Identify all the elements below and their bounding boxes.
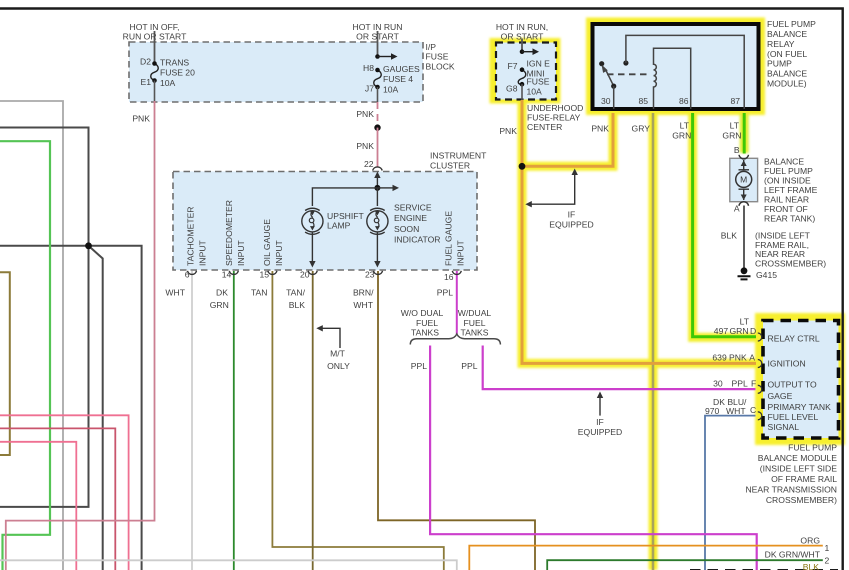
svg-text:C: C	[750, 405, 756, 415]
motor BALANCE FUEL PUMP	[736, 171, 752, 187]
wire PPL w/dual tanks to module F	[483, 346, 756, 390]
svg-text:(ON INSIDE: (ON INSIDE	[764, 176, 811, 186]
svg-text:I/P: I/P	[426, 42, 437, 52]
wire PNK ignition feed core	[522, 100, 756, 363]
svg-text:SPEEDOMETER: SPEEDOMETER	[224, 200, 234, 266]
svg-text:FUEL PUMP: FUEL PUMP	[764, 166, 813, 176]
svg-text:INSTRUMENT: INSTRUMENT	[430, 151, 487, 161]
ground G415	[741, 267, 748, 274]
underhood fuse-relay center box	[496, 43, 556, 100]
svg-text:W/DUAL: W/DUAL	[458, 308, 492, 318]
svg-text:HOT IN RUN: HOT IN RUN	[353, 22, 403, 32]
svg-text:LT: LT	[740, 316, 750, 326]
svg-text:ONLY: ONLY	[327, 361, 350, 371]
connector bracket module C	[758, 412, 762, 420]
svg-text:GAGE: GAGE	[768, 391, 793, 401]
wire dark gray down-left exit	[0, 246, 89, 507]
bottom cut-off component box edge	[690, 569, 838, 570]
svg-text:639: 639	[712, 353, 727, 363]
svg-text:22: 22	[364, 159, 374, 169]
connector bracket motor B	[739, 155, 749, 159]
wire green loop	[0, 141, 50, 570]
svg-text:IGNITION: IGNITION	[768, 358, 806, 368]
junction black wires	[85, 242, 92, 249]
cluster branch to upshift lamp	[312, 188, 377, 206]
relay switch blade	[606, 70, 614, 87]
fuse IGN E MINI FUSE	[518, 70, 526, 85]
svg-text:LT: LT	[730, 120, 740, 130]
svg-text:A: A	[734, 203, 740, 213]
relay switch to pin 30	[613, 86, 615, 109]
svg-text:TANKS: TANKS	[411, 328, 439, 338]
svg-text:FUSE: FUSE	[426, 52, 449, 62]
lamp UPSHIFT	[302, 208, 323, 234]
connector bracket pin 14	[229, 271, 238, 275]
connector bracket module D	[758, 333, 762, 341]
svg-text:87: 87	[730, 96, 740, 106]
svg-text:MODULE): MODULE)	[767, 79, 807, 89]
svg-text:BRN/: BRN/	[353, 287, 374, 297]
arrow IF EQUIPPED lower	[599, 396, 601, 416]
wire dark gray jog branch	[89, 246, 103, 570]
splice S214 dot	[374, 124, 380, 130]
svg-text:CENTER: CENTER	[527, 122, 562, 132]
svg-text:H8: H8	[363, 63, 374, 73]
svg-text:RAIL NEAR: RAIL NEAR	[764, 195, 809, 205]
svg-text:G8: G8	[506, 83, 518, 93]
wire between GAUGES fuse and box bottom	[377, 87, 379, 102]
cluster branch to SES lamp	[376, 188, 378, 206]
svg-text:DK: DK	[216, 287, 228, 297]
svg-text:E1: E1	[140, 77, 151, 87]
highlight wire PNK relay 30 branch	[522, 113, 613, 166]
svg-text:FUEL PUMP: FUEL PUMP	[767, 19, 816, 29]
wire dark gray horizontal branch	[0, 246, 142, 570]
connector bracket pin 15	[268, 271, 277, 275]
svg-text:PNK: PNK	[356, 141, 374, 151]
svg-text:M/T: M/T	[330, 348, 346, 358]
wire PPL w/o dual tanks	[430, 346, 757, 570]
svg-text:BALANCE: BALANCE	[767, 69, 807, 79]
relay coil	[654, 48, 691, 109]
svg-text:HOT IN RUN,: HOT IN RUN,	[496, 22, 548, 32]
junction arrow H8 feed	[378, 56, 393, 58]
svg-text:FUEL: FUEL	[416, 318, 438, 328]
svg-text:WHT: WHT	[353, 300, 373, 310]
svg-text:WHT: WHT	[726, 406, 746, 416]
arrow IF EQUIPPED upper	[530, 173, 575, 204]
wire TAN pin 15	[272, 271, 443, 570]
svg-text:PRIMARY TANK: PRIMARY TANK	[768, 402, 832, 412]
wire PNK to cluster pin 22	[377, 128, 379, 167]
junction PNK splice	[519, 163, 526, 170]
svg-text:FUSE-RELAY: FUSE-RELAY	[527, 113, 581, 123]
svg-text:ENGINE: ENGINE	[394, 213, 427, 223]
svg-text:F7: F7	[507, 61, 517, 71]
svg-text:PPL: PPL	[732, 379, 748, 389]
svg-text:OIL GAUGE: OIL GAUGE	[262, 219, 272, 266]
wire BLK feed above IGN E fuse	[521, 39, 523, 52]
svg-text:FUEL PUMP: FUEL PUMP	[788, 443, 837, 453]
svg-text:20: 20	[300, 270, 310, 280]
svg-text:85: 85	[638, 96, 648, 106]
svg-text:FUEL LEVEL: FUEL LEVEL	[768, 412, 819, 422]
junction arrow F7 feed	[522, 51, 534, 53]
svg-text:LT: LT	[680, 120, 690, 130]
svg-text:INPUT: INPUT	[198, 239, 208, 266]
svg-text:W/O DUAL: W/O DUAL	[401, 308, 444, 318]
svg-text:REAR TANK): REAR TANK)	[764, 214, 815, 224]
svg-text:B: B	[734, 145, 740, 155]
svg-text:10A: 10A	[160, 78, 176, 88]
instrument cluster box	[173, 172, 477, 271]
connector bracket pin 22	[373, 167, 383, 171]
wire pink 3	[0, 442, 76, 570]
svg-text:PPL: PPL	[461, 361, 477, 371]
cluster internal arrow right	[377, 187, 393, 189]
svg-text:BALANCE: BALANCE	[767, 29, 807, 39]
I/P fuse block box	[129, 42, 423, 102]
svg-text:PNK: PNK	[499, 126, 517, 136]
highlight underhood fuse box	[490, 38, 561, 104]
svg-text:ORG: ORG	[800, 536, 820, 546]
svg-text:OF FRAME RAIL: OF FRAME RAIL	[771, 474, 837, 484]
svg-text:30: 30	[713, 379, 723, 389]
highlighter bands layer	[490, 18, 846, 570]
wire PNK relay 30 branch core	[522, 113, 613, 166]
svg-text:TAN/: TAN/	[286, 287, 306, 297]
highlight wire LT GRN relay ctrl	[693, 113, 757, 337]
instrument cluster pin 22 internal	[376, 176, 378, 188]
splice brace dual tanks	[410, 334, 500, 344]
wire tan hook left	[0, 272, 10, 455]
svg-text:(INSIDE LEFT SIDE: (INSIDE LEFT SIDE	[760, 464, 837, 474]
svg-text:BLK: BLK	[289, 300, 306, 310]
wire gray full bottom	[0, 560, 457, 570]
svg-text:INDICATOR: INDICATOR	[394, 235, 440, 245]
svg-text:OUTPUT TO: OUTPUT TO	[768, 380, 817, 390]
svg-text:GRN: GRN	[722, 130, 741, 140]
lamp SERVICE ENGINE SOON	[367, 208, 388, 234]
highlight wire GRY	[649, 113, 658, 570]
svg-text:INPUT: INPUT	[236, 239, 246, 266]
svg-text:EQUIPPED: EQUIPPED	[578, 427, 622, 437]
svg-text:86: 86	[679, 96, 689, 106]
wire LT GRN relay ctrl core to module D	[693, 113, 756, 337]
wire TAN/BLK pin 20	[312, 271, 314, 570]
svg-text:DK GRN/WHT: DK GRN/WHT	[765, 550, 821, 560]
svg-text:TAN: TAN	[251, 287, 268, 297]
wire between IGN E fuse and box bottom	[521, 84, 523, 100]
cluster internal junction	[374, 185, 380, 191]
wire PNK from GAUGES fuse dashed segment	[377, 102, 379, 128]
svg-text:TRANS: TRANS	[160, 58, 189, 68]
svg-text:FUSE 20: FUSE 20	[160, 68, 195, 78]
svg-text:BALANCE: BALANCE	[764, 157, 804, 167]
svg-text:23: 23	[365, 270, 375, 280]
connector bracket pin 16	[452, 271, 461, 275]
svg-text:BLOCK: BLOCK	[426, 61, 455, 71]
svg-text:14: 14	[222, 270, 232, 280]
svg-text:BLK: BLK	[721, 231, 738, 241]
highlight wire PNK ignition feed	[522, 100, 757, 363]
connector bracket pin 20	[308, 271, 317, 275]
wire below TRANS fuse inside box	[154, 81, 156, 102]
svg-text:RUN OR START: RUN OR START	[123, 32, 187, 42]
svg-text:CROSSMEMBER): CROSSMEMBER)	[755, 258, 826, 268]
wire gray loop	[0, 101, 63, 570]
wire WHT pin 6	[191, 271, 193, 570]
highlight wire LT GRN pump feed	[740, 113, 749, 153]
svg-text:GRN: GRN	[730, 326, 749, 336]
svg-text:FUSE: FUSE	[527, 77, 550, 87]
svg-text:HOT IN OFF,: HOT IN OFF,	[130, 22, 180, 32]
wire BRN/WHT pin 23	[378, 271, 535, 570]
svg-text:PNK: PNK	[132, 114, 150, 124]
svg-text:GRN: GRN	[672, 130, 691, 140]
svg-text:IGN E: IGN E	[527, 58, 551, 68]
svg-text:1: 1	[825, 543, 830, 553]
svg-text:OR START: OR START	[356, 32, 399, 42]
wire pink 1	[0, 415, 129, 570]
svg-text:EQUIPPED: EQUIPPED	[549, 219, 593, 229]
svg-text:SERVICE: SERVICE	[394, 203, 432, 213]
svg-text:RELAY: RELAY	[767, 39, 795, 49]
svg-text:FUSE 4: FUSE 4	[383, 74, 413, 84]
svg-text:A: A	[749, 353, 755, 363]
connector bracket module F	[758, 385, 762, 393]
relay mechanical link dashed	[607, 73, 648, 75]
svg-text:F: F	[751, 379, 756, 389]
wire pink 2	[0, 428, 115, 570]
svg-text:GRY: GRY	[632, 123, 651, 133]
svg-text:FUEL GAUGE: FUEL GAUGE	[444, 211, 454, 266]
svg-text:G415: G415	[756, 270, 777, 280]
wire dark gray upper	[0, 128, 89, 246]
connector bracket pin 23	[374, 271, 383, 275]
svg-text:970: 970	[705, 406, 720, 416]
svg-text:UPSHIFT: UPSHIFT	[327, 211, 365, 221]
highlight module box	[755, 313, 845, 445]
svg-text:TANKS: TANKS	[460, 328, 488, 338]
svg-text:IF: IF	[568, 210, 576, 220]
svg-text:PUMP: PUMP	[767, 59, 792, 69]
svg-text:TACHOMETER: TACHOMETER	[186, 206, 196, 266]
svg-text:CLUSTER: CLUSTER	[430, 161, 470, 171]
wire PPL pin 16	[456, 271, 458, 334]
arrow M/T ONLY	[321, 328, 340, 348]
svg-text:CROSSMEMBER): CROSSMEMBER)	[766, 495, 837, 505]
fuse GAUGES FUSE 4	[374, 70, 382, 87]
svg-text:15: 15	[259, 270, 269, 280]
wire upshift lamp to pin 20	[311, 232, 313, 263]
svg-text:FRONT OF: FRONT OF	[764, 204, 808, 214]
svg-text:10A: 10A	[527, 87, 543, 97]
svg-text:RELAY CTRL: RELAY CTRL	[768, 333, 820, 343]
svg-text:IF: IF	[596, 417, 604, 427]
wire DK GRN/WHT	[547, 560, 823, 570]
wire PNK from TRANS fuse	[6, 101, 155, 570]
svg-text:16: 16	[444, 272, 454, 282]
svg-text:SIGNAL: SIGNAL	[768, 422, 800, 432]
connector bracket module A	[758, 360, 762, 368]
svg-text:GRN: GRN	[210, 300, 229, 310]
wire DK GRN pin 14	[233, 271, 235, 570]
highlight relay box	[586, 18, 765, 116]
svg-text:D: D	[750, 326, 756, 336]
relay switch pivot contact	[599, 61, 604, 66]
svg-text:PNK: PNK	[356, 109, 374, 119]
svg-text:INPUT: INPUT	[456, 239, 466, 266]
svg-text:SOON: SOON	[394, 224, 419, 234]
wire SES lamp to pin 23	[376, 232, 378, 263]
wire BLK feed above GAUGES fuse	[377, 31, 379, 57]
wire ORG	[469, 546, 823, 570]
svg-text:D2: D2	[140, 57, 151, 67]
svg-text:PPL: PPL	[437, 287, 453, 297]
svg-text:2: 2	[825, 556, 830, 566]
svg-text:BALANCE MODULE: BALANCE MODULE	[758, 453, 838, 463]
svg-text:BLK: BLK	[803, 562, 820, 570]
svg-text:LAMP: LAMP	[327, 221, 351, 231]
relay NO contact to pin 87	[623, 60, 628, 65]
connector bracket motor A	[739, 202, 749, 206]
svg-text:J7: J7	[365, 84, 374, 94]
svg-text:FUEL: FUEL	[464, 318, 486, 328]
svg-text:INPUT: INPUT	[274, 239, 284, 266]
svg-text:10A: 10A	[383, 85, 399, 95]
svg-text:NEAR TRANSMISSION: NEAR TRANSMISSION	[745, 485, 837, 495]
svg-text:UNDERHOOD: UNDERHOOD	[527, 103, 583, 113]
svg-text:GAUGES: GAUGES	[383, 64, 420, 74]
wire LT GRN pump feed core	[743, 113, 746, 154]
fuel pump balance relay box	[593, 24, 759, 109]
wire GRY core	[652, 113, 655, 570]
wire BLK pump to ground	[743, 206, 745, 269]
wire BLK feed above TRANS fuse	[154, 31, 156, 64]
svg-text:WHT: WHT	[165, 287, 185, 297]
svg-text:(ON FUEL: (ON FUEL	[767, 49, 807, 59]
svg-text:30: 30	[601, 96, 611, 106]
svg-text:M: M	[740, 175, 747, 185]
wire DK BLU/WHT to module C	[705, 416, 756, 570]
svg-text:6: 6	[185, 270, 190, 280]
svg-text:497: 497	[714, 326, 729, 336]
svg-text:PNK: PNK	[591, 123, 609, 133]
balance fuel pump motor box	[730, 158, 758, 201]
svg-text:LEFT FRAME: LEFT FRAME	[764, 185, 818, 195]
svg-text:PNK: PNK	[729, 353, 747, 363]
fuel pump balance module box	[763, 321, 839, 439]
svg-text:OR START: OR START	[501, 32, 544, 42]
fuse TRANS FUSE 20	[151, 64, 159, 81]
connector bracket pin 6	[188, 271, 197, 275]
svg-text:PPL: PPL	[411, 361, 427, 371]
